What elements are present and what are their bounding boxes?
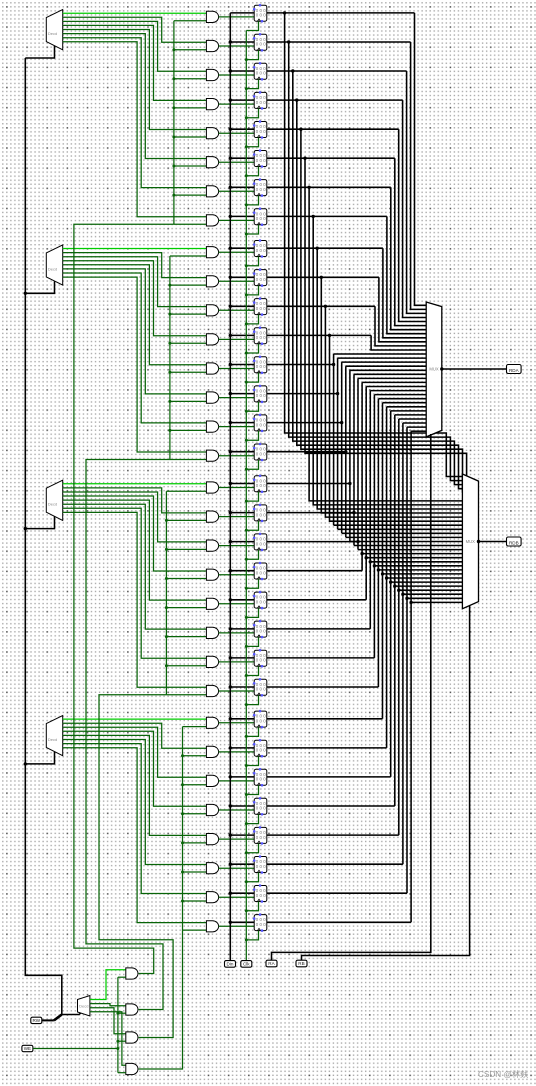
pin R26 unconnected top [259, 768, 262, 771]
wire Din stub to R16 D [230, 483, 254, 485]
pin RDB (read data B output) [507, 537, 522, 546]
pin R19 unconnected top [259, 562, 262, 565]
svg-text:000: 000 [256, 364, 267, 369]
svg-text:000: 000 [256, 393, 267, 398]
register R31 (8-bit) [254, 915, 267, 931]
wire R19 Q row [267, 570, 362, 572]
wire R4 Q row [267, 128, 399, 130]
wire decoder U4 out6 to gate G30 in1 [63, 744, 207, 894]
wire R20 Q row [267, 599, 366, 601]
register R14 (8-bit) [254, 415, 267, 431]
pin R26 unconnected west [253, 772, 256, 775]
junction Din trunk row 18 [229, 540, 232, 543]
wire R1 to MUXB riser [289, 42, 463, 481]
wire Clk elbow to R16 clock [246, 492, 258, 501]
wire G26 out to register R26 en [219, 780, 255, 782]
junction R19 riser / MUXB [360, 552, 363, 555]
wire decoder U2 out1 to gate G9 in1 [63, 253, 207, 278]
pin R15 unconnected top [259, 443, 262, 446]
pin R21 unconnected west [253, 624, 256, 627]
wire Din stub to R31 D [230, 921, 254, 923]
wire G1 out to register R1 en [219, 45, 255, 47]
AND gate G27 (write enable row 27) [206, 804, 218, 815]
junction R1 Q / MUXB riser [287, 40, 290, 43]
pin RW (write address) [31, 1017, 42, 1023]
junction R11 Q / MUXB riser [328, 334, 331, 337]
wire decoder U1 out2 to gate G2 in1 [63, 21, 207, 71]
wire U6 select to RB [302, 606, 470, 961]
wire Clk elbow to R2 clock [246, 79, 258, 88]
wire G7 out to register R7 en [219, 219, 255, 221]
AND gate G13 (write enable row 13) [206, 392, 218, 403]
wire Clk elbow to R1 clock [246, 50, 258, 59]
wire Clk elbow to R17 clock [246, 521, 258, 530]
AND gate G7 (write enable row 7) [206, 215, 218, 226]
AND gate G24 (write enable row 24) [206, 717, 218, 728]
wire R12 shared riser [333, 354, 335, 525]
AND gate G29 (write enable row 29) [206, 863, 218, 874]
register R7 (8-bit) [254, 209, 267, 225]
junction Din trunk row 14 [229, 421, 232, 424]
junction R23 riser / MUXB [377, 568, 380, 571]
wire R21 to MUXB [370, 561, 462, 563]
junction group 2 trunk / G21 in2 [165, 635, 168, 638]
svg-text:000: 000 [256, 541, 267, 546]
wire U4 select to RW trunk [25, 752, 54, 764]
wire decoder U1 out3 to gate G3 in1 [63, 25, 207, 100]
wire decoder U3 out4 to gate G20 in1 [63, 500, 207, 600]
wire U7 out1 to gate GW2 in1 [90, 1004, 126, 1006]
wire enable stub to gate G29 in2 [183, 871, 207, 873]
wire enable stub to gate G2 in2 [174, 78, 207, 80]
junction Clk trunk row 15 [245, 468, 248, 471]
wire decoder U3 out3 to gate G19 in1 [63, 496, 207, 571]
wire R31 to MUXB [411, 601, 462, 603]
svg-text:Din: Din [227, 962, 234, 967]
pin R23 unconnected west [253, 682, 256, 685]
AND gate G23 (write enable row 23) [206, 685, 218, 696]
svg-text:000: 000 [256, 306, 267, 311]
wire decoder U3 out2 to gate G18 in1 [63, 492, 207, 542]
pin RDA (read data A output) [507, 365, 522, 374]
wire G4 out to register R4 en [219, 132, 255, 134]
wire G10 out to register R10 en [219, 309, 255, 311]
wire write-enable feed group 1 [86, 460, 170, 1010]
wire Clk elbow to R29 clock [246, 873, 258, 882]
wire R14 shared riser [341, 362, 343, 533]
svg-text:000: 000 [256, 42, 267, 47]
AND gate GW2 (group 1 write enable) [126, 1004, 138, 1015]
wire enable stub to gate G21 in2 [166, 636, 206, 638]
junction Din trunk row 23 [229, 685, 232, 688]
wire R20 to MUXA [366, 386, 426, 388]
wire R19 to MUXB [362, 553, 462, 555]
wire R11 Q row [267, 334, 371, 336]
svg-text:000: 000 [256, 129, 267, 134]
wire G29 out to register R29 en [219, 867, 255, 869]
wire write-enable feed group 2 [99, 695, 173, 1038]
junction Din trunk row 22 [229, 656, 232, 659]
junction Clk trunk row 2 [245, 87, 248, 90]
wire R12 Q row [267, 364, 334, 366]
wire R18 Q row [267, 541, 358, 543]
junction Clk trunk row 3 [245, 116, 248, 119]
wire R26 Q row [267, 776, 391, 778]
wire Din bus trunk [229, 13, 231, 961]
wire R8 to MUXA staircase [383, 248, 426, 338]
wire R23 shared riser [377, 399, 379, 687]
wire R19 to MUXA [362, 381, 426, 383]
wire R23 to MUXA [378, 398, 426, 400]
junction Din trunk row 12 [229, 363, 232, 366]
pin U5 output [440, 367, 443, 370]
wire R14 to MUXA [342, 361, 427, 363]
wire R12 to MUXA [334, 353, 427, 355]
svg-text:000: 000 [256, 658, 267, 663]
junction R13 Q / riser [336, 392, 339, 395]
wire RW select trunk [25, 58, 62, 1015]
wire R30 to MUXA [407, 426, 426, 428]
wire Din stub to R22 D [230, 657, 254, 659]
AND gate G15 (write enable row 15) [206, 450, 218, 461]
junction R26 riser / MUXB [389, 580, 392, 583]
wire Clk elbow to R28 clock [246, 843, 258, 852]
pin R18 unconnected top [259, 533, 262, 536]
wire decoder U2 out4 to gate G12 in1 [63, 265, 207, 365]
wire G21 out to register R21 en [219, 632, 255, 634]
wire R31 to MUXA [411, 430, 426, 432]
wire R18 to MUXA [358, 377, 426, 379]
junction group 2 trunk / G19 in2 [165, 577, 168, 580]
junction R14 Q / riser [340, 421, 343, 424]
wire decoder U1 out5 to gate G5 in1 [63, 34, 207, 159]
junction group 1 trunk / G14 in2 [168, 429, 171, 432]
wire decoder U4 out7 to gate G31 in1 [63, 748, 207, 923]
svg-text:000: 000 [256, 687, 267, 692]
wire Clk elbow to R0 clock [246, 21, 258, 30]
wire Din stub to R28 D [230, 834, 254, 836]
wire Clk elbow to R30 clock [246, 902, 258, 911]
wire Din stub to R21 D [230, 628, 254, 630]
AND gate GW4 (group 3 write enable) [126, 1063, 138, 1074]
wire Clk elbow to R14 clock [246, 431, 258, 440]
wire decoder U2 out2 to gate G10 in1 [63, 257, 207, 307]
junction Clk trunk row 1 [245, 58, 248, 61]
AND gate GW1 (group 0 write enable) [126, 968, 138, 979]
wire R0 to MUXA staircase [415, 13, 427, 305]
register R2 (8-bit) [254, 63, 267, 79]
junction Clk trunk row 6 [245, 203, 248, 206]
wire Din stub to R26 D [230, 776, 254, 778]
pin R15 unconnected south [261, 459, 264, 462]
junction group 2 trunk / G18 in2 [165, 548, 168, 551]
svg-text:000: 000 [256, 893, 267, 898]
junction Din trunk row 3 [229, 98, 232, 101]
pin R15 unconnected west [253, 447, 256, 450]
wire R7 Q row [267, 215, 387, 217]
wire WE stub to GW2 in2 [118, 1012, 126, 1014]
pin R11 unconnected south [261, 342, 264, 345]
register R26 (8-bit) [254, 769, 267, 785]
wire G25 out to register R25 en [219, 751, 255, 753]
pin R16 unconnected south [261, 491, 264, 494]
wire R15 to MUXB [346, 536, 463, 538]
pin R20 unconnected west [253, 595, 256, 598]
wire R27 to MUXB [395, 585, 463, 587]
AND gate G22 (write enable row 22) [206, 656, 218, 667]
svg-text:RDB: RDB [509, 540, 519, 545]
wire G13 out to register R13 en [219, 397, 255, 399]
wire R8 to MUXB riser [317, 248, 462, 509]
junction group 1 trunk / G13 in2 [168, 400, 171, 403]
junction Clk trunk row 30 [245, 909, 248, 912]
wire R16 to MUXA [350, 369, 426, 371]
wire R3 to MUXB riser [297, 100, 463, 489]
junction Din trunk row 4 [229, 128, 232, 131]
register R19 (8-bit) [254, 563, 267, 579]
pin R29 unconnected south [261, 871, 264, 874]
svg-text:000: 000 [256, 719, 267, 724]
wire G23 out to register R23 en [219, 690, 255, 692]
wire U7 out0 to gate GW1 in1 [90, 970, 126, 1000]
wire Din stub to R8 D [230, 247, 254, 249]
wire R23 to MUXB [378, 569, 462, 571]
pin R12 unconnected south [261, 372, 264, 375]
wire Din stub to R14 D [230, 422, 254, 424]
wire R10 to MUXB riser [325, 306, 462, 517]
wire R22 Q row [267, 657, 375, 659]
wire G12 out to register R12 en [219, 368, 255, 370]
junction Din trunk row 26 [229, 775, 232, 778]
AND gate G4 (write enable row 4) [206, 128, 218, 139]
svg-text:CSDN @林麸: CSDN @林麸 [478, 1069, 528, 1079]
pin R18 unconnected south [261, 549, 264, 552]
svg-text:WE: WE [24, 1046, 31, 1051]
pin R14 unconnected west [253, 418, 256, 421]
wire G22 out to register R22 en [219, 661, 255, 663]
svg-text:000: 000 [256, 187, 267, 192]
wire R19 shared riser [361, 382, 363, 570]
junction Clk trunk row 22 [245, 674, 248, 677]
wire G2 out to register R2 en [219, 74, 255, 76]
junction R4 Q / MUXB riser [299, 128, 302, 131]
pin RB (read address B) [296, 960, 307, 967]
junction group 3 trunk / G27 in2 [181, 812, 184, 815]
wire R31 shared riser [410, 431, 412, 922]
pin R22 unconnected top [259, 649, 262, 652]
pin R26 unconnected south [261, 784, 264, 787]
svg-text:000: 000 [256, 629, 267, 634]
junction Din trunk row 1 [229, 40, 232, 43]
junction Clk trunk row 18 [245, 558, 248, 561]
junction R20 riser / MUXB [365, 556, 368, 559]
wire U7 out3 to gate GW4 in1 [90, 1012, 126, 1066]
wire R1 Q row [267, 41, 411, 43]
pin R12 unconnected top [259, 356, 262, 359]
AND gate G0 (write enable row 0) [206, 11, 218, 22]
register R12 (8-bit) [254, 357, 267, 373]
pin R1 unconnected top [259, 33, 262, 36]
junction Clk trunk row 5 [245, 174, 248, 177]
wire Clk elbow to R10 clock [246, 315, 258, 324]
pin Din (write data input) [225, 961, 236, 968]
svg-text:000: 000 [256, 451, 267, 456]
junction Clk trunk row 21 [245, 645, 248, 648]
junction Clk trunk row 7 [245, 233, 248, 236]
wire R3 Q row [267, 99, 403, 101]
wire Clk elbow to R6 clock [246, 196, 258, 205]
junction R29 riser / MUXB [401, 593, 404, 596]
pin R4 unconnected top [259, 120, 262, 123]
wire G9 out to register R9 en [219, 280, 255, 282]
wire U1 select to RW trunk [25, 46, 54, 58]
svg-text:Decd: Decd [79, 1004, 88, 1009]
wire Clk elbow to R23 clock [246, 695, 258, 704]
junction R8 Q / MUXB riser [316, 247, 319, 250]
wire Din stub to R6 D [230, 186, 254, 188]
junction R24 riser / MUXB [381, 572, 384, 575]
wire decoder U4 out1 to gate G25 in1 [63, 723, 207, 748]
pin R30 unconnected top [259, 884, 262, 887]
wire R27 shared riser [394, 415, 396, 806]
wire enable stub to gate G6 in2 [174, 194, 207, 196]
wire decoder U1 out6 to gate G6 in1 [63, 38, 207, 188]
junction group 0 trunk / G3 in2 [172, 106, 175, 109]
wire Din stub to R4 D [230, 128, 254, 130]
pin R13 unconnected south [261, 401, 264, 404]
pin R6 unconnected top [259, 178, 262, 181]
wire write-enable feed group 0 [74, 224, 174, 973]
wire R2 to MUXA staircase [407, 71, 427, 313]
pin R9 unconnected top [259, 268, 262, 271]
wire decoder U2 out5 to gate G13 in1 [63, 269, 207, 394]
pin R31 unconnected top [259, 913, 262, 916]
svg-text:Decd: Decd [48, 266, 57, 271]
wire R17 Q row [267, 512, 354, 514]
wire R25 Q row [267, 747, 387, 749]
pin R25 unconnected west [253, 743, 256, 746]
junction Clk trunk row 19 [245, 587, 248, 590]
junction group 0 trunk / G4 in2 [172, 136, 175, 139]
wire WE trunk [117, 977, 119, 1072]
register R13 (8-bit) [254, 386, 267, 402]
junction Din trunk row 6 [229, 186, 232, 189]
pin R22 unconnected west [253, 653, 256, 656]
wire Clk elbow to R9 clock [246, 286, 258, 295]
wire Din stub to R29 D [230, 863, 254, 865]
svg-text:000: 000 [256, 277, 267, 282]
wire Din stub to R25 D [230, 747, 254, 749]
register R23 (8-bit) [254, 679, 267, 695]
junction Din trunk row 9 [229, 276, 232, 279]
wire group 0 enable trunk [173, 21, 175, 225]
junction Clk trunk row 17 [245, 529, 248, 532]
decoder U3 (write row select, group 2) [46, 480, 62, 520]
pin R20 unconnected south [261, 607, 264, 610]
junction Clk trunk row 27 [245, 822, 248, 825]
wire enable stub to gate G5 in2 [174, 165, 207, 167]
pin R30 unconnected south [261, 900, 264, 903]
svg-text:000: 000 [256, 600, 267, 605]
wire R7 to MUXA staircase [387, 216, 426, 333]
junction group 3 trunk / G25 in2 [181, 754, 184, 757]
junction RW trunk / U4 select [24, 762, 27, 765]
junction Clk trunk row 28 [245, 851, 248, 854]
wire R17 to MUXA [354, 373, 426, 375]
junction Din trunk row 28 [229, 833, 232, 836]
pin R2 unconnected south [261, 78, 264, 81]
svg-text:000: 000 [256, 13, 267, 18]
wire R16 shared riser [349, 370, 351, 541]
junction R0 Q / MUXB riser [283, 11, 286, 14]
wire R9 to MUXB riser [321, 277, 462, 513]
wire decoder U4 out2 to gate G26 in1 [63, 727, 207, 777]
wire R30 Q row [267, 892, 407, 894]
wire Din stub to R30 D [230, 892, 254, 894]
wire G18 out to register R18 en [219, 545, 255, 547]
register R29 (8-bit) [254, 857, 267, 873]
wire enable stub to gate G19 in2 [166, 578, 206, 580]
wire R25 to MUXB [387, 577, 463, 579]
wire R3 to MUXA staircase [403, 100, 427, 317]
junction R7 Q / MUXB riser [312, 215, 315, 218]
wire Clk elbow to R3 clock [246, 108, 258, 117]
wire R26 shared riser [390, 411, 392, 777]
wire Din stub to R10 D [230, 305, 254, 307]
wire R8 Q row [267, 247, 383, 249]
wire Din stub to R1 D [230, 41, 254, 43]
pin R28 unconnected west [253, 830, 256, 833]
junction R22 riser / MUXB [373, 564, 376, 567]
pin WE (write enable) [22, 1045, 33, 1051]
wire R31 Q row [267, 921, 411, 923]
register R18 (8-bit) [254, 534, 267, 550]
wire decoder U4 out4 to gate G28 in1 [63, 735, 207, 835]
wire Clk elbow to R24 clock [246, 727, 258, 736]
pin R21 unconnected top [259, 620, 262, 623]
wire Clk elbow to R8 clock [246, 257, 258, 266]
junction group 0 trunk / G6 in2 [172, 194, 175, 197]
AND gate G20 (write enable row 20) [206, 598, 218, 609]
junction R15 Q / riser [344, 450, 347, 453]
wire G14 out to register R14 en [219, 426, 255, 428]
wire R15 to MUXA [346, 365, 426, 367]
junction Din trunk row 29 [229, 863, 232, 866]
wire R28 to MUXA [399, 418, 426, 420]
junction R16 Q / riser [348, 482, 351, 485]
wire enable stub to gate G27 in2 [183, 813, 207, 815]
wire R2 to MUXB riser [293, 71, 463, 485]
multiplexer U5 (read port A, 32:1) [426, 302, 442, 437]
AND gate G28 (write enable row 28) [206, 834, 218, 845]
junction Din trunk row 10 [229, 305, 232, 308]
wire R27 to MUXA [395, 414, 426, 416]
AND gate G1 (write enable row 1) [206, 40, 218, 51]
wire R24 to MUXA [383, 402, 427, 404]
wire enable stub to gate G23 in2 [166, 694, 206, 696]
wire R5 to MUXB riser [305, 158, 467, 497]
wire decoder U3 out1 to gate G17 in1 [63, 488, 207, 513]
wire WE to trunk [33, 1048, 118, 1050]
pin R19 unconnected south [261, 578, 264, 581]
register R21 (8-bit) [254, 621, 267, 637]
junction WE trunk / GW2 [116, 1012, 119, 1015]
wire Din stub to R13 D [230, 393, 254, 395]
pin R30 unconnected west [253, 888, 256, 891]
junction R18 Q / riser [356, 540, 359, 543]
pin R24 unconnected top [259, 710, 262, 713]
wire Clk elbow to R22 clock [246, 666, 258, 675]
